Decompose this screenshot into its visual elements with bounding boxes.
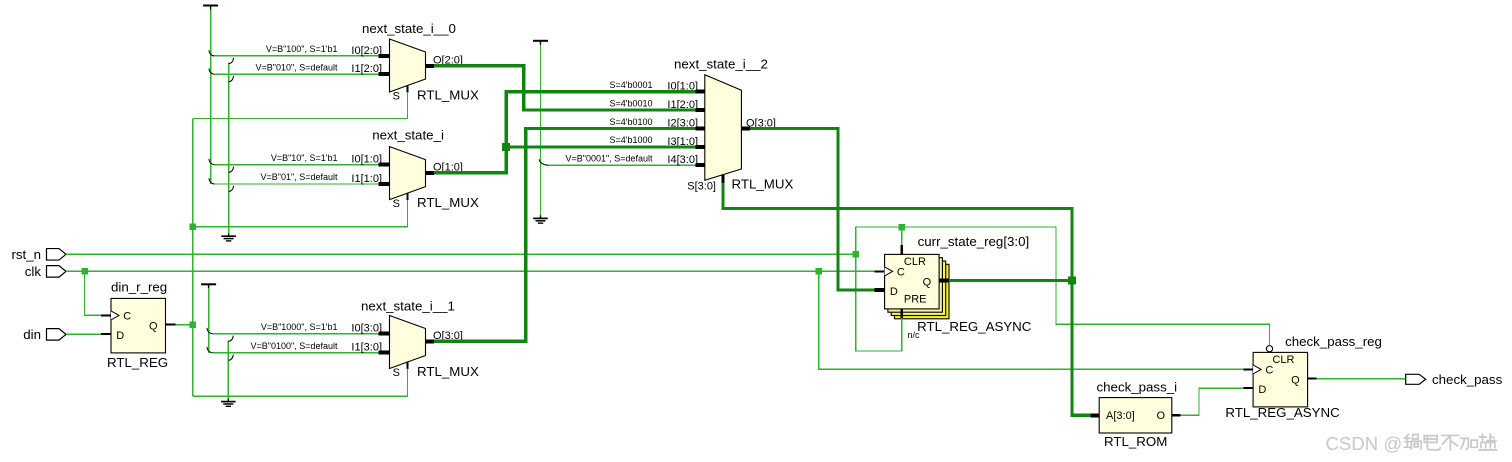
register curr_state_reg[3:0] clock triangle [885, 267, 893, 276]
svg-text:C: C [123, 311, 131, 323]
register curr_state_reg Q stub [939, 279, 949, 283]
svg-text:Q: Q [923, 277, 932, 289]
svg-text:next_state_i: next_state_i [372, 127, 444, 142]
power VCC symbol mid-left [201, 284, 216, 288]
mux next_state_i pin I0 stub [379, 163, 390, 167]
svg-text:C: C [1265, 365, 1273, 377]
mux next_state_i__2 pin label I2 [667, 118, 698, 130]
bus rip tick rail-B below I1 mux1 [229, 186, 234, 192]
svg-text:clk: clk [25, 264, 42, 279]
register din_r_reg pin label D [116, 330, 124, 342]
mux next_state_i__2 value label I1 [609, 98, 652, 108]
wire const to mux3 I0 [213, 333, 379, 335]
svg-text:V=B"100", S=1'b1: V=B"100", S=1'b1 [266, 44, 338, 54]
wire mux1 O to mux2 I0 [434, 92, 696, 173]
wire select to mux0 S [193, 92, 408, 118]
input port clk label [25, 264, 42, 279]
wire mux1 O branch to mux2 I3 [506, 145, 695, 148]
junction curr_state Q [1068, 277, 1076, 285]
mux next_state_i pin O stub [426, 171, 435, 175]
watermark glyph bu [1442, 435, 1459, 450]
register curr_state_reg[3:0] body [885, 254, 949, 318]
wire const to mux1 I1 [215, 183, 379, 185]
mux next_state_i__0 pin I1 stub [379, 72, 390, 76]
wire clk branch to din_r_reg C [85, 271, 102, 315]
register check_pass_reg Q stub [1308, 378, 1317, 380]
bus rip tick rail-B top [229, 58, 234, 64]
svg-text:D: D [890, 286, 898, 298]
const rail wire x=208.6 [208, 288, 210, 353]
svg-text:PRE: PRE [904, 294, 927, 306]
svg-text:din: din [23, 327, 41, 342]
output port check_pass label [1432, 372, 1503, 387]
rom check_pass_i type label RTL_ROM [1104, 434, 1167, 449]
wire const to mux2 I4 [549, 164, 696, 166]
input port din label [23, 327, 41, 342]
mux next_state_i__0 title label [362, 21, 456, 36]
svg-text:I0[3:0]: I0[3:0] [351, 323, 382, 335]
register curr_state_reg D stub [875, 288, 885, 292]
svg-text:S=4'b0100: S=4'b0100 [609, 117, 652, 127]
mux next_state_i__2 pin label I3 [667, 136, 698, 148]
register curr_state_reg C stub [875, 270, 885, 272]
mux next_state_i__2 title label [674, 57, 768, 72]
mux next_state_i__1 pin label O [433, 330, 463, 342]
mux next_state_i value label I0 [271, 153, 338, 163]
register check_pass_reg clock triangle [1253, 365, 1261, 374]
svg-text:S: S [393, 91, 400, 103]
mux next_state_i__2 pin O stub [741, 127, 750, 131]
mux next_state_i__0 pin label I1 [351, 63, 382, 75]
junction clk at check_pass branch [816, 268, 823, 275]
mux next_state_i__1 type label RTL_MUX [417, 364, 479, 379]
svg-text:I1[1:0]: I1[1:0] [351, 173, 382, 185]
mux next_state_i value label I1 [261, 172, 338, 182]
svg-text:RTL_MUX: RTL_MUX [417, 364, 479, 379]
svg-text:Q: Q [1291, 375, 1300, 387]
wire const to mux3 I1 [213, 352, 379, 354]
mux next_state_i type label RTL_MUX [417, 195, 479, 210]
wire mux3 O to mux2 I2 [434, 129, 696, 342]
svg-text:I0[1:0]: I0[1:0] [351, 154, 382, 166]
input port clk symbol [47, 266, 67, 278]
svg-text:rst_n: rst_n [11, 247, 41, 262]
rom check_pass_i title label [1097, 380, 1178, 395]
register din_r_reg clock triangle [111, 311, 119, 320]
const rail wire x=540.5 [540, 45, 542, 216]
svg-text:S: S [393, 367, 400, 379]
wire select to mux3 S [193, 369, 408, 397]
rom check_pass_i pin label O [1157, 410, 1166, 422]
register curr_state_reg CLR stub [901, 245, 904, 255]
mux next_state_i__0 pin I0 stub [379, 54, 390, 58]
svg-text:V=B"0100", S=default: V=B"0100", S=default [251, 341, 338, 351]
register curr_state_reg[3:0] pin label CLR [904, 256, 926, 268]
mux next_state_i pin I1 stub [379, 182, 390, 186]
svg-text:CLR: CLR [1272, 354, 1294, 366]
bus rip tick rail-B' top [228, 336, 233, 342]
register din_r_reg pin label Q [149, 321, 158, 333]
svg-text:I4[3:0]: I4[3:0] [667, 154, 698, 166]
watermark CSDN latin part [1326, 433, 1403, 454]
register din_r_reg Q stub [166, 324, 176, 326]
svg-text:check_pass_reg: check_pass_reg [1285, 334, 1382, 349]
wire const to mux0 I1 [215, 73, 379, 75]
svg-text:D: D [116, 330, 124, 342]
register din_r_reg type label [107, 355, 168, 370]
rom check_pass_i body [1099, 398, 1172, 433]
mux next_state_i body [390, 147, 426, 200]
svg-text:RTL_MUX: RTL_MUX [417, 195, 479, 210]
mux next_state_i__2 body [705, 75, 742, 181]
watermark glyph jia [1460, 438, 1477, 449]
svg-text:check_pass_i: check_pass_i [1097, 380, 1178, 395]
mux next_state_i__2 pin label I0 [667, 81, 698, 93]
mux next_state_i__1 pin I1 stub [379, 351, 390, 355]
mux next_state_i__1 pin S stub [407, 362, 409, 369]
svg-text:RTL_REG_ASYNC: RTL_REG_ASYNC [917, 319, 1032, 334]
mux next_state_i__2 value label I4 [566, 153, 653, 163]
svg-text:RTL_MUX: RTL_MUX [417, 88, 479, 103]
register curr_state_reg PRE stub [901, 309, 904, 318]
junction select at mux1 branch [190, 223, 197, 230]
register curr_state_reg[3:0] pin label C [897, 267, 905, 279]
svg-text:CLR: CLR [904, 256, 926, 268]
wire din to din_r_reg D [66, 333, 101, 335]
ground symbol below I4 rail [533, 215, 548, 223]
input port din symbol [47, 329, 67, 341]
svg-text:n/c: n/c [908, 330, 921, 340]
mux next_state_i pin label O [433, 161, 463, 173]
mux next_state_i__0 pin label I0 [351, 45, 382, 57]
power VCC symbol top-left [203, 6, 218, 10]
wire din_r_reg Q to select rail [176, 324, 193, 326]
rom check_pass_i pin A stub [1091, 413, 1100, 417]
ground symbol below rails [221, 233, 236, 241]
bus rip tick I1 mux1 [209, 178, 215, 184]
mux next_state_i__2 value label I2 [609, 117, 652, 127]
svg-text:V=B"01", S=default: V=B"01", S=default [261, 172, 338, 182]
svg-text:V=B"010", S=default: V=B"010", S=default [256, 62, 338, 72]
junction rst_n at curr CLR riser [853, 251, 860, 257]
svg-text:RTL_ROM: RTL_ROM [1104, 434, 1167, 449]
register check_pass_reg pin label Q [1291, 375, 1300, 387]
register check_pass_reg D stub [1244, 387, 1254, 389]
mux next_state_i title label [372, 127, 444, 142]
ground symbol below mid rails [221, 399, 236, 407]
const rail wire x=210.6 [210, 10, 212, 185]
wire rst_n drop to curr CLR [901, 227, 903, 245]
mux next_state_i__2 pin label I1 [667, 99, 698, 111]
register din_r_reg title label [111, 279, 167, 294]
svg-text:O: O [1157, 410, 1166, 422]
svg-text:S[3:0]: S[3:0] [687, 181, 716, 193]
svg-text:D: D [1258, 384, 1266, 396]
mux next_state_i__2 pin I0 stub [696, 90, 705, 94]
bus rip tick I4 mux2 [539, 159, 548, 165]
register check_pass_reg type label [1225, 405, 1340, 420]
wire clk main [66, 270, 875, 272]
watermark glyph ba [1424, 436, 1440, 450]
wire mux2 S select bus [723, 183, 1072, 281]
svg-text:CSDN @: CSDN @ [1326, 433, 1403, 454]
mux next_state_i__1 pin label S [393, 367, 400, 379]
bus rip tick I1 mux3 [207, 347, 213, 353]
rom check_pass_i pin label A [1106, 410, 1135, 422]
register din_r_reg C stub [101, 314, 111, 316]
mux next_state_i__0 pin label S [393, 91, 400, 103]
mux next_state_i__1 pin I0 stub [379, 332, 390, 336]
wire select rail vertical [192, 119, 194, 397]
register check_pass_reg body [1253, 352, 1308, 407]
svg-text:I1[2:0]: I1[2:0] [351, 63, 382, 75]
mux next_state_i__1 title label [361, 299, 455, 314]
mux next_state_i pin label S [393, 198, 400, 210]
bus rip tick rail-B below I0 mux1 [229, 167, 234, 173]
register curr_state_reg n/c label [908, 330, 921, 340]
register check_pass_reg pin label CLR [1272, 354, 1294, 366]
bus rip tick rail-B' below I1 [228, 355, 233, 361]
mux next_state_i__0 pin label O [433, 54, 463, 66]
register curr_state_reg[3:0] pin label Q [923, 277, 932, 289]
mux next_state_i__2 pin label S [687, 181, 716, 193]
junction mux1 O branch [502, 143, 510, 151]
svg-text:check_pass: check_pass [1432, 372, 1503, 387]
mux next_state_i__2 pin S stub [722, 175, 725, 183]
junction clk at din_r_reg branch [81, 268, 88, 275]
wire rst_n to curr PRE [856, 254, 902, 351]
mux next_state_i__1 pin label I1 [351, 342, 382, 354]
register curr_state_reg[3:0] type label [917, 319, 1032, 334]
watermark glyph guo [1404, 434, 1421, 449]
junction select at din Q [190, 321, 197, 328]
wire const to mux1 I0 [215, 164, 379, 166]
svg-text:I1[3:0]: I1[3:0] [351, 342, 382, 354]
register curr_state_reg[3:0] pin label PRE [904, 294, 927, 306]
svg-text:S=4'b0010: S=4'b0010 [609, 98, 652, 108]
wire check_pass_reg Q to output port [1317, 378, 1406, 380]
mux next_state_i pin S stub [407, 193, 409, 200]
const rail wire x=228.3 [227, 340, 229, 398]
mux next_state_i__0 pin S stub [407, 85, 409, 92]
mux next_state_i pin label I0 [351, 154, 382, 166]
rom check_pass_i pin O stub [1172, 414, 1181, 416]
mux next_state_i__0 value label I1 [256, 62, 338, 72]
mux next_state_i__2 value label I3 [609, 135, 652, 145]
wire curr_state Q to rom A [1072, 281, 1091, 416]
svg-text:curr_state_reg[3:0]: curr_state_reg[3:0] [918, 234, 1030, 249]
mux next_state_i__1 value label I1 [251, 341, 338, 351]
mux next_state_i__2 pin I2 stub [696, 127, 705, 131]
wire rst_n to check_pass_reg CLR [1056, 227, 1270, 346]
power VCC symbol top-middle [533, 41, 548, 45]
register check_pass_reg C stub [1244, 368, 1254, 370]
wire rst_n main [66, 253, 856, 255]
svg-text:V=B"0001", S=default: V=B"0001", S=default [566, 153, 653, 163]
mux next_state_i__2 value label I0 [609, 80, 652, 90]
const rail wire x=228.6 [228, 63, 230, 234]
mux next_state_i__2 pin I3 stub [696, 145, 705, 149]
mux next_state_i__2 pin label O [746, 117, 776, 129]
mux next_state_i__0 pin O stub [426, 64, 435, 68]
mux next_state_i__0 body [390, 39, 426, 92]
register curr_state_reg[3:0] title label [918, 234, 1030, 249]
svg-text:S=4'b0001: S=4'b0001 [609, 80, 652, 90]
svg-text:next_state_i__2: next_state_i__2 [674, 57, 768, 72]
wire mux0 O to mux2 I1 [434, 66, 696, 110]
mux next_state_i__1 pin label I0 [351, 323, 382, 335]
svg-text:Q: Q [149, 321, 158, 333]
wire curr_state Q bus [949, 279, 1072, 282]
mux next_state_i__1 body [390, 316, 426, 369]
svg-text:din_r_reg: din_r_reg [111, 279, 167, 294]
svg-text:V=B"10", S=1'b1: V=B"10", S=1'b1 [271, 153, 338, 163]
register check_pass_reg pin label C [1265, 365, 1273, 377]
mux next_state_i__0 value label I0 [266, 44, 338, 54]
wire rom O to check_pass_reg D [1181, 388, 1244, 415]
svg-text:I0[2:0]: I0[2:0] [351, 45, 382, 57]
register din_r_reg pin label C [123, 311, 131, 323]
input port rst_n symbol [47, 249, 67, 260]
svg-text:RTL_REG: RTL_REG [107, 355, 168, 370]
mux next_state_i pin label I1 [351, 173, 382, 185]
svg-text:next_state_i__1: next_state_i__1 [361, 299, 455, 314]
mux next_state_i__1 value label I0 [261, 322, 338, 332]
mux next_state_i__2 pin label I4 [667, 154, 698, 166]
wire const to mux0 I0 [215, 55, 379, 57]
mux next_state_i__2 pin I1 stub [696, 108, 705, 112]
svg-text:A[3:0]: A[3:0] [1106, 410, 1135, 422]
wire select to mux1 S [193, 200, 408, 227]
svg-text:S=4'b1000: S=4'b1000 [609, 135, 652, 145]
svg-text:RTL_REG_ASYNC: RTL_REG_ASYNC [1225, 405, 1340, 420]
svg-text:next_state_i__0: next_state_i__0 [362, 21, 456, 36]
register din_r_reg D stub [101, 333, 111, 335]
register curr_state_reg[3:0] pin label D [890, 286, 898, 298]
output port check_pass symbol [1406, 374, 1426, 384]
bus rip tick rail-B below I1 [229, 76, 234, 82]
mux next_state_i__2 type label RTL_MUX [732, 177, 794, 192]
watermark glyph yan [1479, 434, 1497, 450]
wire clk branch to check_pass_reg C [819, 271, 1244, 369]
bus rip tick I1 mux0 [209, 69, 215, 75]
register check_pass_reg pin label D [1258, 384, 1266, 396]
bus rip tick I0 mux1 [209, 159, 215, 165]
svg-text:RTL_MUX: RTL_MUX [732, 177, 794, 192]
svg-text:V=B"1000", S=1'b1: V=B"1000", S=1'b1 [261, 322, 338, 332]
bus rip tick I0 mux0 [209, 50, 215, 56]
mux next_state_i__1 pin O stub [426, 339, 435, 343]
svg-text:S: S [393, 198, 400, 210]
mux next_state_i__2 pin I4 stub [696, 163, 705, 167]
bus rip tick I0 mux3 [207, 328, 213, 334]
input port rst_n label [11, 247, 41, 262]
wire mux2 O to curr_state D [750, 129, 875, 291]
wire rst_n riser to CLR rail [856, 227, 1056, 254]
svg-text:C: C [897, 267, 905, 279]
junction rst_n CLR top [899, 224, 906, 231]
register check_pass_reg title label [1285, 334, 1382, 349]
register din_r_reg body [111, 298, 166, 353]
register check_pass_reg CLR bubble [1266, 346, 1272, 352]
mux next_state_i__0 type label RTL_MUX [417, 88, 479, 103]
